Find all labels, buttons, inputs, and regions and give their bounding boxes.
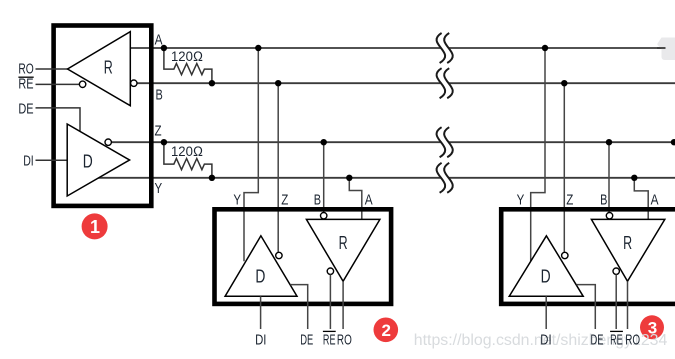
cable break mark on line Y bbox=[437, 163, 453, 193]
wire RO pin (U3) bbox=[627, 281, 629, 329]
wire A line tail under blob bbox=[657, 47, 666, 49]
resistor R-term1 120 ohm between A and B bbox=[164, 48, 212, 83]
cable break mark on line A bbox=[437, 33, 453, 63]
svg-text:B: B bbox=[156, 86, 163, 103]
svg-text:120Ω: 120Ω bbox=[171, 48, 203, 64]
wire RE pin (U3) bbox=[615, 274, 617, 329]
wire RE (U1) bbox=[36, 83, 80, 85]
wire stub: B line to U3 pin Z bbox=[563, 83, 565, 252]
svg-text:Z: Z bbox=[155, 123, 162, 140]
transceiver U1 box bbox=[54, 26, 152, 206]
junction dot Z-R-term2 bbox=[161, 139, 167, 145]
junction dot Y-U3A bbox=[631, 175, 637, 181]
wire DE (U1) bbox=[36, 108, 81, 131]
wire bus line B bbox=[137, 82, 675, 84]
driver amp D (U1) bbox=[67, 124, 129, 196]
callout circle 1 bbox=[82, 213, 108, 239]
inverting output bubble Z (U3) bbox=[562, 252, 568, 258]
wire RO pin (U2) bbox=[342, 281, 344, 329]
wire stub: Y line to U2 pin A (jog) bbox=[349, 178, 362, 220]
junction dot B-R-term1 bbox=[209, 80, 215, 86]
wire stub: A line to U2 pin Y (jog) bbox=[244, 48, 258, 261]
inverting output bubble Z (U2) bbox=[276, 252, 282, 258]
wire DI (U1) bbox=[36, 159, 68, 161]
svg-text:D: D bbox=[83, 152, 93, 172]
svg-text:Z: Z bbox=[566, 191, 573, 208]
svg-text:Y: Y bbox=[517, 191, 525, 208]
junction dot A-R-term1 bbox=[161, 45, 167, 51]
svg-text:Y: Y bbox=[233, 191, 241, 208]
svg-text:RE: RE bbox=[323, 331, 336, 348]
callout circle 2 bbox=[374, 318, 399, 343]
svg-text:DI: DI bbox=[540, 331, 551, 348]
grey overlay blob top-right bbox=[657, 38, 675, 61]
inverting input bubble B (U2) bbox=[321, 213, 327, 219]
svg-text:2: 2 bbox=[382, 321, 391, 340]
svg-text:RE: RE bbox=[610, 331, 623, 348]
enable bubble RE (U1) bbox=[79, 81, 85, 87]
svg-text:RE: RE bbox=[18, 76, 33, 93]
wire DI pin (U3) bbox=[545, 296, 547, 329]
svg-text:A: A bbox=[651, 191, 659, 208]
wire stub: Z line to U3 pin B bbox=[608, 142, 610, 212]
svg-text:RO: RO bbox=[625, 331, 640, 348]
svg-text:DI: DI bbox=[255, 331, 266, 348]
enable bubble RE (U2) bbox=[327, 268, 333, 274]
svg-text:DE: DE bbox=[18, 101, 33, 118]
inverting output bubble Z (U1) bbox=[105, 139, 111, 145]
svg-text:DI: DI bbox=[23, 152, 34, 169]
driver amp D (U3) bbox=[509, 236, 583, 296]
svg-text:1: 1 bbox=[90, 217, 100, 237]
svg-text:D: D bbox=[541, 266, 551, 286]
junction dot B-U2Z bbox=[275, 80, 281, 86]
svg-text:A: A bbox=[155, 31, 163, 48]
junction dot Y-R-term2 bbox=[209, 175, 215, 181]
enable bubble RE (U3) bbox=[613, 268, 619, 274]
svg-text:B: B bbox=[600, 191, 607, 208]
wire RE pin (U2) bbox=[329, 274, 331, 329]
junction dot A-U3Y bbox=[542, 45, 548, 51]
junction dot Z-U3B bbox=[606, 139, 612, 145]
svg-text:DE: DE bbox=[300, 331, 313, 348]
cable break mark on line Z bbox=[437, 127, 453, 157]
svg-text:Y: Y bbox=[155, 180, 163, 197]
receiver amp R (U1) bbox=[68, 32, 131, 106]
junction dot A-U2Y bbox=[255, 45, 261, 51]
svg-text:120Ω: 120Ω bbox=[171, 143, 203, 159]
wire bus line Z bbox=[111, 141, 675, 143]
svg-text:Z: Z bbox=[281, 191, 288, 208]
svg-text:R: R bbox=[623, 233, 632, 253]
junction dot Y-U2A bbox=[346, 175, 352, 181]
resistor R-term2 120 ohm between Z and Y bbox=[164, 142, 212, 178]
transceiver U2 box bbox=[215, 209, 392, 304]
svg-text:R: R bbox=[339, 233, 348, 253]
wire stub: Z line to U2 pin B bbox=[323, 142, 325, 212]
wire stub: B line to U2 pin Z bbox=[277, 83, 279, 252]
wire DE pin (U2) bbox=[290, 285, 307, 329]
svg-text:DE: DE bbox=[591, 331, 604, 348]
wire stub: A line to U3 pin Y (jog) bbox=[531, 48, 545, 261]
inverting input bubble B (U1) bbox=[131, 80, 137, 86]
wire bus line A bbox=[130, 47, 675, 49]
wire DI pin (U2) bbox=[260, 296, 262, 329]
junction dot Y-edge bbox=[671, 139, 675, 145]
svg-text:D: D bbox=[255, 266, 265, 286]
svg-text:R: R bbox=[104, 57, 113, 77]
svg-text:A: A bbox=[365, 191, 373, 208]
wire bus line Y bbox=[98, 177, 675, 179]
receiver amp R (U3) bbox=[591, 219, 664, 281]
wire stub: Y line to U3 pin A (jog) bbox=[634, 178, 648, 220]
receiver amp R (U2) bbox=[306, 219, 380, 281]
svg-text:B: B bbox=[314, 191, 321, 208]
transceiver U3 box bbox=[501, 209, 675, 304]
driver amp D (U2) bbox=[225, 236, 297, 296]
wire RO (U1) bbox=[36, 68, 68, 70]
junction dot B-U3Z bbox=[561, 80, 567, 86]
callout circle 3 bbox=[640, 315, 664, 339]
junction dot Z-U2B bbox=[321, 139, 327, 145]
wire DE pin (U3) bbox=[577, 285, 596, 329]
inverting input bubble B (U3) bbox=[606, 213, 612, 219]
svg-text:RO: RO bbox=[337, 331, 352, 348]
cable break mark on line B bbox=[437, 68, 453, 98]
